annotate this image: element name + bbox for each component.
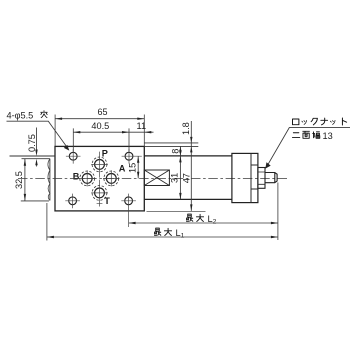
dimension 8 and 31 line [179, 146, 181, 199]
dimension 0.75 arrows [36, 128, 38, 167]
dimension 1.8 and 47 line [190, 121, 192, 211]
port P dashed circle [92, 157, 107, 172]
adjuster block divider [250, 153, 252, 202]
mounting hole bottom-right [125, 197, 133, 205]
svg-text:A: A [119, 164, 126, 174]
svg-text:31: 31 [169, 173, 179, 183]
gasket face line with O-ring bumps [48, 159, 50, 201]
port B crosshair [79, 170, 96, 186]
svg-text:32.5: 32.5 [14, 171, 24, 189]
tube top edge [144, 155, 232, 157]
dimension L1 line [47, 236, 278, 238]
port A circle [106, 174, 116, 184]
adjuster block [232, 153, 258, 202]
port T crosshair with tick [91, 180, 108, 207]
svg-text:B: B [73, 171, 80, 181]
svg-text:1.8: 1.8 [181, 122, 191, 135]
L1 left extension line [46, 203, 48, 241]
svg-text:11: 11 [137, 121, 147, 131]
dimension 40.5 line [73, 131, 129, 133]
leader arrowhead at top-left hole [64, 145, 70, 151]
lock nut leader line [267, 128, 350, 167]
dimension L2 line [129, 222, 278, 224]
label width across flats 13 [292, 131, 319, 138]
nameplate crossed box [144, 170, 169, 186]
dimension 65 extension lines [55, 115, 144, 147]
main centerline [18, 177, 289, 179]
svg-text:47: 47 [181, 173, 191, 183]
adjuster block hex chamfer lines [251, 165, 258, 189]
port P crosshair [91, 152, 108, 178]
svg-text:8: 8 [171, 149, 181, 154]
lock nut leader arrowhead [265, 162, 270, 168]
mounting hole top-right [125, 152, 133, 160]
left line gasket face extension [22, 158, 50, 160]
line 1.8 top extension [144, 142, 198, 144]
dimension L2 label [186, 214, 204, 221]
svg-text:0.75: 0.75 [27, 134, 37, 152]
body top extension line [144, 145, 198, 147]
left line hole centerline extension [10, 155, 55, 157]
svg-text:40.5: 40.5 [91, 121, 109, 131]
port A dashed circle [104, 171, 119, 186]
dimension 15 line [137, 156, 139, 178]
body block outline [55, 146, 144, 211]
svg-text:15: 15 [128, 163, 138, 173]
port T circle [95, 188, 105, 198]
port A crosshair [103, 170, 120, 186]
dimension L1 label [154, 228, 172, 235]
body bottom extension line [147, 210, 206, 212]
port P circle [95, 160, 105, 170]
bottom hole centerline extension [21, 200, 49, 202]
svg-text:T: T [104, 196, 110, 206]
svg-text:P: P [102, 149, 108, 159]
svg-text:L2: L2 [208, 214, 217, 226]
svg-text:L1: L1 [176, 228, 185, 240]
tube bottom edge [144, 198, 232, 200]
svg-text:65: 65 [97, 107, 107, 117]
lock nut hex lines [258, 172, 265, 184]
mounting hole bottom-left [69, 197, 77, 205]
svg-text:13: 13 [323, 131, 333, 141]
lock nut [258, 168, 265, 189]
leader underline for 4-phi5.5 [7, 121, 68, 148]
svg-text:4-φ5.5: 4-φ5.5 [7, 110, 34, 120]
dimension 11 line with tail [129, 131, 154, 133]
dimension 40.5 extension lines [73, 128, 129, 151]
label lock nut (katakana) [293, 118, 347, 125]
L1 L2 right extension line [277, 183, 279, 241]
port B dashed circle [80, 171, 95, 186]
port T dashed circle [92, 186, 107, 201]
dimension 32.5 line [24, 159, 26, 201]
dimension 65 line [55, 118, 144, 120]
mounting hole top-left [69, 152, 77, 160]
port B circle [82, 174, 92, 184]
adjust screw stub [265, 173, 277, 183]
